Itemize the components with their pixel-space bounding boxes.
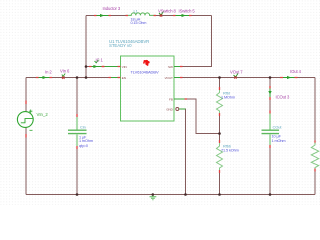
junction Cin top node [76, 76, 79, 79]
wire COut column x=270 [269, 78, 271, 195]
wire Rfbt column [219, 78, 221, 134]
current probe In 2 [36, 69, 52, 79]
svg-text:VIn 6: VIn 6 [60, 68, 70, 73]
wire VIN branch y=66.5 [86, 66, 121, 68]
wire top net: corner riser to SW corner [86, 15, 212, 17]
wire FB net [174, 99, 220, 134]
wire ground rail y=194.5 [26, 194, 315, 196]
voltage source VIn_2 [17, 101, 48, 138]
junction Cin bottom on rail [76, 193, 79, 196]
wire SW corner vertical x=211.5 [174, 16, 212, 67]
pin SW [168, 65, 182, 69]
junction VIN branch [85, 65, 88, 68]
wire Rfbb column [219, 134, 221, 195]
resistor Rload [311, 141, 318, 172]
capacitor Cin [68, 114, 93, 149]
junction VOut-Rfbt node [218, 76, 221, 79]
svg-text:1 mOhm: 1 mOhm [79, 139, 93, 143]
pin VIN [102, 65, 127, 69]
svg-text:0.15 Ohm: 0.15 Ohm [131, 21, 147, 25]
capacitor COut [262, 111, 286, 149]
svg-text:IOut 4: IOut 4 [290, 69, 302, 74]
wire load column x=315 [314, 78, 316, 195]
resistor Rfbb [217, 140, 239, 173]
svg-text:COut: COut [273, 125, 283, 130]
svg-text:In 2: In 2 [45, 69, 52, 74]
svg-text:STEADY v0: STEADY v0 [109, 43, 132, 48]
svg-text:ICOut 3: ICOut 3 [276, 94, 291, 99]
junction riser on input net [85, 76, 88, 79]
svg-text:SW: SW [168, 65, 173, 69]
svg-text:GND: GND [166, 107, 173, 111]
svg-text:EN: EN [122, 76, 126, 80]
wire source column x=20 [25, 78, 27, 195]
svg-text:TLV61046ADBV: TLV61046ADBV [130, 70, 159, 75]
svg-text:71.5 kOhm: 71.5 kOhm [221, 148, 239, 152]
current probe Inductor 3 (top wire) [94, 6, 121, 17]
TI logo [143, 60, 150, 66]
current probe ISwitch 5 [173, 8, 195, 17]
svg-text:Inductor 3: Inductor 3 [103, 6, 121, 11]
svg-text:VOut 7: VOut 7 [230, 70, 243, 75]
svg-text:VOUT: VOUT [165, 76, 173, 80]
current probe IOut 4 [280, 69, 302, 79]
ground [150, 195, 157, 200]
wire GND pin column x=185.5 [180, 109, 186, 195]
wire riser x=86 from top wire to main input wire [85, 16, 87, 78]
junction FB node [218, 132, 221, 135]
wire Cin column x=77 [76, 78, 78, 195]
IC U1 TLV61046ADBV box [109, 39, 174, 121]
pin GND [166, 107, 185, 111]
pin FB [169, 97, 187, 101]
junction ground symbol on rail [152, 193, 155, 196]
pin VOUT [165, 76, 183, 80]
svg-text:VIn_2: VIn_2 [37, 112, 49, 117]
resistor Rfbt [217, 87, 235, 116]
svg-text:VIN: VIN [122, 65, 127, 69]
wire main input y=77.5 [26, 77, 121, 79]
wire VOut net y=77.5 [174, 77, 315, 79]
junction COut bottom on rail [269, 193, 272, 196]
voltage probe VOut 7 [230, 70, 243, 79]
junction GND wire on rail [184, 193, 187, 196]
current probe ICOut 3 (COut column) [268, 86, 290, 100]
svg-text:Cin: Cin [80, 125, 86, 130]
inductor L1 [126, 9, 157, 26]
svg-text:1 MOhm: 1 MOhm [221, 95, 235, 99]
svg-text:ISwitch 5: ISwitch 5 [179, 8, 196, 13]
svg-text:VSwitch 8: VSwitch 8 [158, 8, 176, 13]
pin EN [109, 76, 126, 80]
svg-text:FB: FB [169, 97, 173, 101]
voltage probe VSwitch 8 [158, 8, 176, 16]
svg-text:1 mOhm: 1 mOhm [272, 139, 286, 143]
voltage probe VIn 6 [60, 68, 70, 79]
junction VOut-COut node [269, 76, 272, 79]
current probe IC 1 (VIN branch) [89, 57, 104, 68]
junction Rfbb bottom on rail [218, 193, 221, 196]
svg-text:qty=0: qty=0 [79, 144, 88, 148]
svg-text:IC 1: IC 1 [96, 57, 104, 62]
